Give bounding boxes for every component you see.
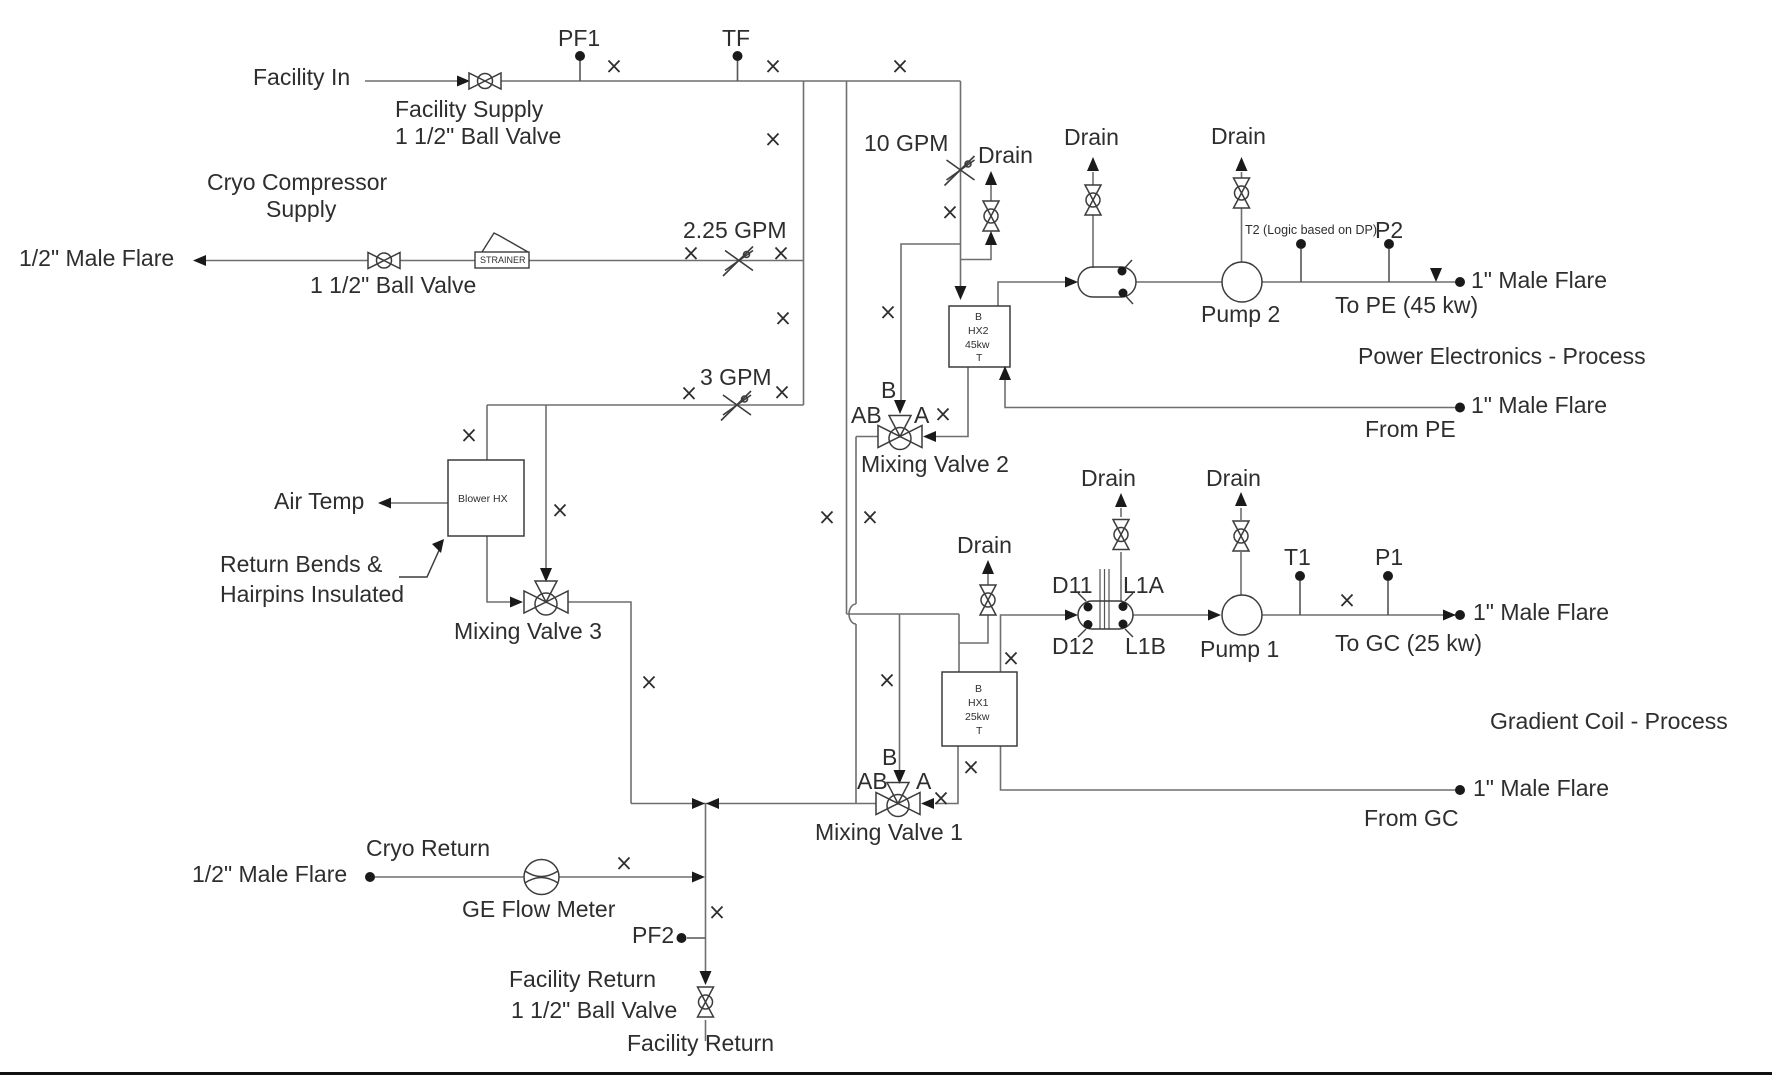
svg-text:Pump 1: Pump 1 <box>1200 636 1279 662</box>
svg-text:Drain: Drain <box>978 142 1033 168</box>
wire air temp pointer <box>389 502 448 504</box>
wire header drop to HX2 <box>960 81 962 287</box>
strainer <box>475 233 529 268</box>
svg-text:Gradient Coil - Process: Gradient Coil - Process <box>1490 708 1728 734</box>
arrow drain1 top <box>985 171 997 185</box>
wire V1 header <box>803 81 805 405</box>
junction arrows at return tee <box>692 798 705 809</box>
svg-text:Drain: Drain <box>1081 465 1136 491</box>
svg-text:Drain: Drain <box>1064 124 1119 150</box>
valve Facility Supply 1 1/2" Ball Valve <box>469 73 501 89</box>
arrow into MV2 A port <box>923 431 936 442</box>
wire valve to strainer <box>400 260 475 262</box>
arrow into pump1 <box>1208 610 1221 621</box>
heat exchanger Blower HX <box>448 460 524 536</box>
svg-text:1" Male Flare: 1" Male Flare <box>1473 775 1609 801</box>
valve Facility Return ball valve <box>698 987 714 1017</box>
arrow down to facility return valve <box>700 971 712 985</box>
wire T1 stem <box>1299 581 1301 615</box>
wire Facility In to ball valve <box>365 80 459 82</box>
arrow drain1 below valve <box>985 231 997 245</box>
drain 1 (HX2) valve <box>983 201 999 231</box>
wire strainer to V1 <box>529 260 804 262</box>
arrow drain4 top <box>1115 493 1127 507</box>
svg-text:T: T <box>976 725 983 737</box>
wire top supply header <box>500 80 961 82</box>
svg-text:D12: D12 <box>1052 633 1094 659</box>
wire MV3 A to V631 <box>568 602 631 804</box>
flow meter GE <box>524 860 559 895</box>
svg-text:Power Electronics - Process: Power Electronics - Process <box>1358 343 1646 369</box>
arrow into PE capsule <box>1065 277 1078 288</box>
arrow air temp <box>378 498 391 509</box>
svg-text:1 1/2" Ball Valve: 1 1/2" Ball Valve <box>511 997 677 1023</box>
svg-text:L1B: L1B <box>1125 633 1166 659</box>
heat exchanger HX1 <box>942 672 1017 746</box>
svg-text:Supply: Supply <box>266 196 337 222</box>
wire HX2 bottom-right From PE riser <box>1005 380 1456 408</box>
drain 3 valve (pump2) <box>1234 178 1250 208</box>
svg-text:45kw: 45kw <box>965 339 990 351</box>
sensor PF2 <box>677 933 687 943</box>
svg-text:1" Male Flare: 1" Male Flare <box>1471 392 1607 418</box>
wire drain4 stem <box>1120 508 1122 601</box>
svg-text:1 1/2" Ball Valve: 1 1/2" Ball Valve <box>310 272 476 298</box>
wire drain3 stem <box>1241 172 1243 262</box>
arrow up into HX2 bottom <box>999 366 1011 380</box>
svg-text:L1A: L1A <box>1123 572 1165 598</box>
arrow into MV3 B port <box>540 568 552 582</box>
wire drain tap at HX2 <box>961 243 992 260</box>
node cryo return dot <box>365 872 375 882</box>
wire PF2 stub <box>687 937 706 939</box>
svg-text:Facility Supply: Facility Supply <box>395 96 544 122</box>
svg-text:PF1: PF1 <box>558 25 600 51</box>
wire B branch to MV3 <box>545 405 547 570</box>
wire drain2 stem <box>1092 172 1094 268</box>
arrow on GC flare <box>1443 610 1456 621</box>
capsule GC loop filter D11/L1A <box>1078 593 1133 637</box>
valve 1 1/2" Ball Valve (cryo) <box>368 253 400 269</box>
wire H614 bypass <box>847 613 960 615</box>
pump Pump 2 <box>1222 262 1262 302</box>
svg-text:P1: P1 <box>1375 544 1403 570</box>
wire MV1 AB return line <box>631 803 876 805</box>
svg-text:1" Male Flare: 1" Male Flare <box>1473 599 1609 625</box>
sensor T1 <box>1295 571 1305 581</box>
wire TF stem <box>737 59 739 81</box>
wire HX2 bottom-left to MV2 A <box>935 367 968 437</box>
sensor PF1 <box>575 51 585 61</box>
wire tap to MV2 B <box>901 244 961 403</box>
wire HX1 top-right to GC capsule <box>1001 615 1067 672</box>
svg-text:1" Male Flare: 1" Male Flare <box>1471 267 1607 293</box>
wire cryo return line 2 <box>559 876 694 878</box>
wire PE capsule to pump2 <box>1136 281 1222 283</box>
valve needle 2.25 GPM <box>723 247 753 277</box>
wire flare to ball valve <box>196 260 368 262</box>
svg-text:GE Flow Meter: GE Flow Meter <box>462 896 616 922</box>
arrow drain6 top <box>982 560 994 574</box>
sensor P2 <box>1384 239 1394 249</box>
svg-text:1/2" Male Flare: 1/2" Male Flare <box>19 245 174 271</box>
valve needle 3 GPM <box>721 391 751 421</box>
wire drain6 stem <box>987 574 989 587</box>
sensor TF <box>733 51 743 61</box>
svg-text:1/2" Male Flare: 1/2" Male Flare <box>192 861 347 887</box>
svg-text:B: B <box>975 683 982 695</box>
svg-text:Cryo Return: Cryo Return <box>366 835 490 861</box>
svg-text:25kw: 25kw <box>965 711 990 723</box>
wire 3GPM down into Blower HX <box>486 405 488 460</box>
wire Blower HX bottom to MV3 left <box>487 536 511 602</box>
svg-text:Drain: Drain <box>1206 465 1261 491</box>
drain 2 valve (PE capsule) <box>1085 185 1101 215</box>
leader return bends arrow <box>399 546 441 577</box>
wire P2 stem <box>1388 249 1390 282</box>
svg-text:Facility Return: Facility Return <box>627 1030 774 1056</box>
svg-text:Facility Return: Facility Return <box>509 966 656 992</box>
wire V2 header <box>846 81 848 614</box>
svg-text:Drain: Drain <box>957 532 1012 558</box>
wire HX1 bottom-left to MV1 A <box>935 746 958 804</box>
arrow terminal left flare <box>193 255 206 266</box>
valve needle 10 GPM <box>945 156 975 186</box>
svg-text:T: T <box>976 352 983 364</box>
arrow into MV1 A port <box>921 798 934 809</box>
drain 4 valve (GC capsule) <box>1113 520 1129 550</box>
node From PE flare dot <box>1455 403 1465 413</box>
svg-text:Mixing Valve 2: Mixing Valve 2 <box>861 451 1009 477</box>
drain 6 valve (HX1) <box>980 585 996 615</box>
arrow drain5 top <box>1235 492 1247 506</box>
wire HX1 bottom-right From GC <box>1001 746 1457 790</box>
wire pump2 to flare <box>1262 281 1456 283</box>
wire capsule hatch risers <box>1100 569 1109 629</box>
wire drain tap at HX1 <box>959 613 988 643</box>
svg-text:B: B <box>882 744 897 770</box>
heat exchanger HX2 <box>949 306 1010 367</box>
svg-text:AB: AB <box>857 768 888 794</box>
svg-text:PF2: PF2 <box>632 922 674 948</box>
svg-text:Mixing Valve 3: Mixing Valve 3 <box>454 618 602 644</box>
svg-text:A: A <box>916 768 932 794</box>
valve MV2 B arrow <box>894 400 906 414</box>
svg-text:A: A <box>914 402 930 428</box>
pump Pump 1 <box>1222 595 1262 635</box>
valve Mixing Valve 3 <box>524 581 568 615</box>
wire 3 GPM line <box>487 404 804 406</box>
svg-text:HX2: HX2 <box>968 325 989 337</box>
valve MV1 B arrow <box>894 770 906 784</box>
svg-text:HX1: HX1 <box>968 697 989 709</box>
wire V5 to HX1 top <box>958 614 960 672</box>
arrow into return tee <box>692 872 705 883</box>
arrow drain2 top <box>1087 157 1099 171</box>
wire return drop V6 <box>705 804 707 972</box>
svg-text:Return Bends &: Return Bends & <box>220 551 382 577</box>
valve Mixing Valve 1 <box>876 783 920 817</box>
wire drain1 stem <box>990 185 992 201</box>
svg-text:T2 (Logic based on DP): T2 (Logic based on DP) <box>1245 223 1377 237</box>
svg-text:1 1/2" Ball Valve: 1 1/2" Ball Valve <box>395 123 561 149</box>
svg-text:10 GPM: 10 GPM <box>864 130 948 156</box>
node PE flare dot <box>1455 277 1465 287</box>
svg-text:3 GPM: 3 GPM <box>700 364 772 390</box>
wire facility return below valve <box>705 1020 707 1041</box>
svg-text:From PE: From PE <box>1365 416 1456 442</box>
wire GC capsule to pump1 <box>1133 614 1210 616</box>
drain 5 valve (pump1) <box>1233 521 1249 551</box>
valve Mixing Valve 2 <box>878 416 922 450</box>
svg-text:Blower HX: Blower HX <box>458 493 508 505</box>
svg-text:T1: T1 <box>1284 544 1311 570</box>
svg-text:B: B <box>881 377 896 403</box>
marker check valve tick on PE flare <box>1430 268 1442 282</box>
svg-text:B: B <box>975 311 982 323</box>
svg-text:P2: P2 <box>1375 217 1403 243</box>
wire V4 to MV1 B <box>899 614 901 772</box>
svg-text:AB: AB <box>851 402 882 428</box>
wire V3 from MV2 AB with hop over H614 <box>849 437 856 804</box>
svg-text:Air Temp: Air Temp <box>274 488 364 514</box>
sensor P1 <box>1383 571 1393 581</box>
arrow down into HX2 <box>955 286 967 300</box>
svg-text:D11: D11 <box>1052 572 1093 598</box>
wire drain5 stem <box>1240 508 1242 595</box>
arrow into facility supply valve <box>457 76 470 87</box>
wire P1 stem <box>1387 581 1389 615</box>
svg-text:To GC (25 kw): To GC (25 kw) <box>1335 630 1482 656</box>
wire PF1 stem <box>579 59 581 81</box>
svg-text:STRAINER: STRAINER <box>480 255 526 265</box>
arrow into GC capsule <box>1065 610 1078 621</box>
node From GC flare dot <box>1455 785 1465 795</box>
svg-text:Pump 2: Pump 2 <box>1201 301 1280 327</box>
wire T2 stem <box>1300 249 1302 282</box>
svg-text:To PE (45 kw): To PE (45 kw) <box>1335 292 1478 318</box>
wire HX2 top-right to PE capsule <box>998 282 1066 306</box>
svg-text:Facility In: Facility In <box>253 64 350 90</box>
wire pump1 to flare <box>1262 614 1456 616</box>
svg-text:2.25 GPM: 2.25 GPM <box>683 217 787 243</box>
arrow drain3 top <box>1236 157 1248 171</box>
node GC flare dot <box>1455 610 1465 620</box>
sensor T2 <box>1296 239 1306 249</box>
svg-text:Cryo Compressor: Cryo Compressor <box>207 169 388 195</box>
svg-text:TF: TF <box>722 25 750 51</box>
wire cryo return line <box>375 876 524 878</box>
svg-text:Hairpins Insulated: Hairpins Insulated <box>220 581 404 607</box>
arrow into MV3 left port <box>510 597 523 608</box>
svg-text:Drain: Drain <box>1211 123 1266 149</box>
wire MV2 AB to V3 <box>856 436 878 438</box>
svg-text:From GC: From GC <box>1364 805 1459 831</box>
capsule PE loop filter <box>1078 260 1136 304</box>
border bottom rule <box>0 1072 1772 1075</box>
svg-text:Mixing Valve 1: Mixing Valve 1 <box>815 819 963 845</box>
